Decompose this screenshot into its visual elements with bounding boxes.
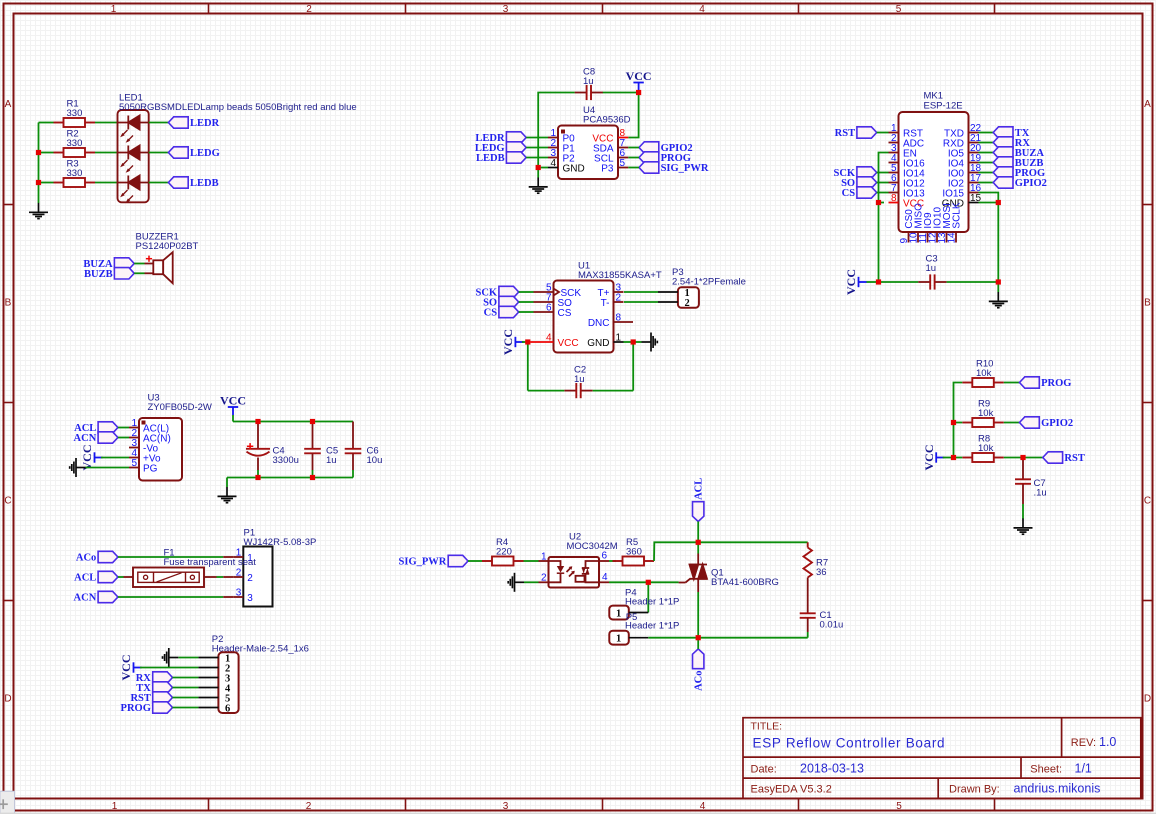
junction R2/GND bus	[36, 150, 41, 155]
svg-text:T-: T-	[601, 298, 610, 309]
U1 pin 4 VCC red stub	[530, 341, 553, 343]
ground (P2, rotated)	[163, 648, 179, 667]
resistor R4	[482, 557, 524, 566]
svg-text:ACL: ACL	[694, 478, 705, 500]
wire R1 left	[39, 122, 54, 124]
svg-text:Header 1*1P: Header 1*1P	[625, 596, 679, 607]
wire P1 pin3 stub	[223, 596, 233, 598]
U3 pin 5 PG	[129, 467, 139, 469]
wire T+ to P3	[624, 291, 658, 293]
wire VCC to U3	[101, 457, 129, 459]
wire U2 pin2 to ground	[524, 581, 539, 583]
wire U4 SDA to GPIO2	[628, 147, 639, 149]
wire IO15 to GND net	[979, 193, 999, 203]
resistor R3	[54, 178, 96, 187]
U3 pin 1 AC(L)	[129, 427, 139, 429]
svg-text:4: 4	[602, 572, 608, 583]
svg-text:MOC3042M: MOC3042M	[567, 541, 618, 552]
svg-text:ACN: ACN	[74, 593, 97, 604]
wire P1 pin2 stub	[223, 576, 233, 578]
port LEDG	[168, 147, 219, 159]
svg-text:Header 1*1P: Header 1*1P	[625, 621, 679, 632]
MK1 pin 20 IO5	[969, 152, 979, 154]
svg-text:Drawn By:: Drawn By:	[949, 784, 1000, 796]
connector P2 Header-Male-2.54_1x6	[198, 652, 238, 714]
wire F1 to P1	[217, 576, 224, 578]
svg-text:C: C	[4, 496, 11, 507]
P5 pin 1	[629, 637, 649, 639]
U1 pin 8 DNC	[614, 321, 634, 323]
svg-text:2: 2	[247, 573, 253, 584]
U4 pin 1 P0	[548, 137, 558, 139]
capacitor C2	[564, 383, 592, 398]
port PROG	[1020, 377, 1072, 389]
wire SCK to MK1	[877, 172, 889, 174]
svg-text:PG: PG	[143, 463, 158, 474]
wire P2 pin1 to ground	[178, 657, 198, 659]
VCC (P2, rotated)	[119, 655, 142, 681]
port SO	[483, 296, 519, 308]
U3 pin 4 +Vo	[129, 457, 139, 459]
svg-text:PROG: PROG	[1041, 378, 1071, 389]
svg-text:VCC: VCC	[119, 655, 133, 681]
wire PROG to P2	[173, 707, 199, 709]
port PROG	[639, 152, 691, 164]
wire MK1 to RX	[979, 142, 994, 144]
wire R2 left	[39, 152, 54, 154]
port LEDB	[476, 152, 526, 164]
svg-text:PS1240P02BT: PS1240P02BT	[136, 241, 199, 252]
junction gate/P4	[646, 580, 651, 585]
U2 pin 6	[599, 560, 609, 562]
port ACN	[74, 432, 118, 444]
capacitor C8	[575, 85, 603, 100]
wire ACo up	[697, 638, 699, 649]
MK1 pin 8 VCC	[889, 202, 899, 204]
U1 pin 2 T-	[614, 301, 624, 303]
svg-text:CS: CS	[558, 308, 572, 319]
svg-text:VCC: VCC	[501, 329, 515, 355]
wire MK1 to TX	[979, 132, 994, 134]
port GPIO2	[993, 177, 1047, 189]
svg-text:LEDG: LEDG	[190, 148, 220, 159]
buzzer plus sign	[146, 256, 152, 262]
resistor R10	[962, 378, 1004, 387]
svg-text:2: 2	[541, 573, 547, 584]
VCC (C3, rotated)	[844, 269, 867, 295]
svg-text:REV:: REV:	[1071, 737, 1096, 749]
wire R8 to RST	[1004, 457, 1043, 459]
MK1 pin 13 MOSI (bottom)	[946, 232, 948, 243]
junction ACL/Q1 top	[696, 540, 701, 545]
wire T- to P3	[624, 301, 658, 303]
port RST	[835, 127, 877, 139]
port SIG_PWR	[639, 162, 709, 174]
svg-text:DNC: DNC	[588, 318, 610, 329]
svg-text:Sheet:: Sheet:	[1030, 763, 1062, 775]
wire U2 pin4 to gate	[609, 581, 648, 583]
IC U4 PCA9536D	[548, 126, 628, 180]
VCC (pullups, rotated)	[922, 445, 945, 471]
svg-text:VCC: VCC	[626, 69, 652, 83]
U4 pin 6 SCL	[618, 157, 628, 159]
svg-text:10k: 10k	[978, 408, 994, 419]
svg-text:B: B	[1144, 298, 1151, 309]
port ACL	[74, 571, 118, 583]
svg-text:ESP Reflow Controller Board: ESP Reflow Controller Board	[753, 736, 946, 751]
junction R9 VCC	[951, 420, 956, 425]
port BUZA	[83, 258, 134, 270]
capacitor C7	[1015, 460, 1031, 504]
port SO	[841, 177, 877, 189]
wire VCC down	[232, 415, 234, 422]
wire C4 bottom	[257, 470, 259, 478]
connector P5 Header 1*1P	[609, 631, 648, 645]
U3 pin 2 AC(N)	[129, 437, 139, 439]
svg-text:1: 1	[111, 4, 117, 15]
frame row letters right	[1144, 99, 1151, 705]
connector P1 WJ142R-5.08-3P	[233, 547, 272, 607]
wire C2 right	[593, 390, 634, 392]
wire SO to MK1	[877, 182, 889, 184]
svg-text:2: 2	[306, 801, 312, 812]
U4 pin 4 GND	[548, 167, 558, 169]
port LEDR	[475, 132, 526, 144]
svg-text:ACN: ACN	[74, 433, 97, 444]
wire to ground (C3)	[997, 282, 999, 292]
port TX	[993, 127, 1030, 139]
U4 pin 2 P1	[548, 147, 558, 149]
wire GND net down	[997, 203, 999, 283]
svg-text:D: D	[1144, 694, 1151, 705]
svg-text:5: 5	[131, 458, 137, 469]
VCC (cap bank)	[220, 394, 246, 416]
MK1 pin 17 IO2	[969, 182, 979, 184]
resistor R1	[54, 118, 96, 127]
svg-text:6: 6	[546, 302, 552, 313]
svg-text:2: 2	[685, 298, 690, 309]
junction R8 VCC	[951, 455, 956, 460]
wire SIG_PWR to R4	[468, 560, 482, 562]
svg-text:VCC: VCC	[922, 445, 936, 471]
resistor R2	[54, 148, 96, 157]
wire R1 to LED1	[95, 122, 118, 124]
MK1 pin 11 IO9 (bottom)	[927, 232, 929, 243]
wire CS to MK1	[877, 192, 889, 194]
P4 pin 1	[629, 612, 649, 614]
svg-text:VCC: VCC	[844, 269, 858, 295]
P2 pin 6	[198, 707, 218, 709]
wire ACL to U3	[118, 427, 129, 429]
wire RST to P2	[173, 697, 199, 699]
port ACo	[76, 551, 118, 563]
ground (U3 PG, rotated)	[70, 458, 86, 477]
svg-text:BTA41-600BRG: BTA41-600BRG	[711, 577, 779, 588]
wire GND rail	[227, 477, 353, 479]
wire ACo to P1	[118, 556, 223, 558]
port TX	[136, 682, 172, 694]
svg-text:1u: 1u	[926, 263, 937, 274]
svg-text:360: 360	[626, 547, 642, 558]
title block	[743, 718, 1141, 799]
svg-text:GPIO2: GPIO2	[1015, 178, 1047, 189]
svg-text:4: 4	[700, 801, 706, 812]
P1 pin 1	[233, 556, 243, 558]
wire BUZA	[134, 263, 144, 265]
svg-text:3: 3	[236, 587, 242, 598]
svg-text:C: C	[1144, 496, 1151, 507]
svg-text:RST: RST	[835, 128, 855, 139]
svg-text:10k: 10k	[978, 443, 994, 454]
wire VCC net down	[878, 203, 880, 283]
frame column numbers bottom	[112, 801, 903, 812]
port RX	[136, 672, 173, 684]
svg-text:2: 2	[616, 292, 622, 303]
frame column ticks top	[208, 4, 210, 14]
wire MK1 to BUZA	[979, 152, 994, 154]
svg-text:P3: P3	[601, 163, 614, 174]
C4 plus sign	[247, 443, 253, 449]
junction RST/C7	[1020, 455, 1025, 460]
wire ACN to U3	[118, 437, 129, 439]
wire C8 left to GND net	[538, 93, 574, 168]
port GPIO2	[1020, 417, 1074, 429]
U1 pin 3 T+	[614, 291, 624, 293]
wire TX to P2	[173, 687, 199, 689]
wire LED1 to LEDR	[149, 122, 169, 124]
P2 pin 4	[198, 687, 218, 689]
P3 pin 2	[658, 301, 678, 303]
wire C6 bottom	[352, 470, 354, 478]
port PROG	[121, 702, 173, 714]
VCC (U4)	[626, 69, 652, 91]
bottom viewport edge	[0, 813, 1156, 814]
LED package LED1	[118, 110, 149, 203]
wire R9 to GPIO2	[1004, 422, 1020, 424]
svg-text:1: 1	[541, 551, 547, 562]
svg-text:VCC: VCC	[558, 338, 579, 349]
wire GND vertical bus	[38, 123, 40, 204]
MK1 pin 22 TXD	[969, 132, 979, 134]
svg-text:1.0: 1.0	[1099, 735, 1116, 749]
MK1 pin 6 IO12	[889, 182, 899, 184]
junction C3 VCC	[876, 279, 881, 284]
svg-text:1: 1	[616, 332, 622, 343]
junction MK1 VCC	[876, 200, 881, 205]
wire R3 to LED1	[95, 182, 118, 184]
svg-text:2.54-1*2PFemale: 2.54-1*2PFemale	[672, 276, 746, 287]
svg-text:CS: CS	[842, 188, 856, 199]
svg-text:330: 330	[67, 138, 83, 149]
port GPIO2	[639, 142, 693, 154]
wire bottom rail	[648, 637, 807, 639]
svg-text:D: D	[4, 694, 11, 705]
svg-text:10u: 10u	[367, 455, 383, 466]
svg-text:6: 6	[225, 703, 230, 714]
MK1 pin 2 ADC	[889, 142, 899, 144]
MK1 pin 19 IO4	[969, 162, 979, 164]
wire VCC stub	[867, 281, 879, 283]
wire CS to U1	[519, 311, 534, 313]
port ACL	[74, 422, 118, 434]
MK1 pin 14 SCLK (bottom)	[955, 232, 957, 243]
svg-text:ACo: ACo	[76, 553, 96, 564]
P2 pin 3	[198, 677, 218, 679]
svg-text:Fuse transparent seat: Fuse transparent seat	[164, 557, 257, 568]
svg-text:1: 1	[616, 608, 621, 619]
wire RX to P2	[173, 677, 199, 679]
junction C5 top	[310, 419, 315, 424]
MK1 pin 3 EN	[889, 152, 899, 154]
wire C7 to ground	[1022, 504, 1024, 519]
MK1 pin 5 IO14	[889, 172, 899, 174]
svg-text:5: 5	[620, 158, 626, 169]
wire P1 pin1 stub	[223, 556, 233, 558]
port SCK	[476, 286, 519, 298]
wire VCC to P2 pin2	[140, 667, 198, 669]
svg-text:BUZB: BUZB	[84, 269, 113, 280]
wire LEDG to U4	[526, 147, 548, 149]
wire GND to junction	[624, 341, 634, 343]
svg-text:2018-03-13: 2018-03-13	[800, 761, 864, 775]
P3 pin 1	[658, 291, 678, 293]
wire ACL to F1	[118, 576, 124, 578]
wire MK1 to PROG	[979, 172, 994, 174]
wire P4 up to gate	[647, 582, 649, 612]
port RX	[993, 137, 1030, 149]
frame column numbers top	[111, 4, 902, 15]
svg-text:andrius.mikonis: andrius.mikonis	[1014, 782, 1101, 796]
junction U1 VCC	[525, 339, 530, 344]
svg-text:ACL: ACL	[74, 573, 96, 584]
svg-text:36: 36	[816, 567, 827, 578]
port BUZB	[84, 268, 134, 280]
wire PG to ground	[86, 467, 130, 469]
wire SCK to U1	[519, 291, 534, 293]
wire VCC pullup bus	[954, 383, 963, 458]
junction C5 bottom	[310, 475, 315, 480]
port LEDG	[475, 142, 526, 154]
svg-text:TITLE:: TITLE:	[751, 721, 783, 733]
VCC (U1, rotated)	[501, 329, 524, 355]
wire VCC stub	[943, 457, 954, 459]
MK1 pin 7 IO13	[889, 192, 899, 194]
MK1 pin 18 IO0	[969, 172, 979, 174]
resistor R7 (zigzag)	[804, 542, 812, 613]
svg-text:2: 2	[306, 4, 312, 15]
VCC (U3, rotated)	[80, 445, 103, 471]
frame column ticks bottom	[208, 799, 210, 811]
U1 pin 5 SCK	[534, 291, 554, 293]
wire VCC to junction	[522, 341, 528, 343]
junction U1 GND	[631, 339, 636, 344]
U4 pin 5 P3	[618, 167, 628, 169]
svg-text:4: 4	[699, 4, 705, 15]
ground (LED bus)	[29, 203, 48, 219]
wire Q1 MT2	[697, 542, 699, 553]
svg-text:ESP-12E: ESP-12E	[924, 100, 963, 111]
port SIG_PWR	[399, 555, 468, 567]
junction ACo/Q1 bottom	[696, 635, 701, 640]
svg-text:RST: RST	[1064, 453, 1084, 464]
svg-text:2: 2	[236, 567, 242, 578]
wire SO to U1	[519, 301, 534, 303]
wire GND stub	[633, 341, 641, 343]
wire R5 to top rail	[654, 542, 808, 561]
svg-text:10k: 10k	[976, 368, 992, 379]
P1 pin 2	[233, 576, 243, 578]
wire RST to MK1	[877, 132, 889, 134]
wire VCC to U4 pin8	[628, 95, 638, 138]
U2 pin 4	[599, 581, 609, 583]
frame row letters left	[4, 99, 11, 705]
resistor R5	[613, 557, 655, 566]
title block text	[751, 721, 1097, 796]
port PROG	[993, 167, 1045, 179]
port ACL	[693, 478, 705, 522]
port RST	[1043, 452, 1085, 464]
svg-text:1u: 1u	[326, 455, 337, 466]
wire C1 to bottom rail	[807, 632, 809, 638]
MK1 pin 1 RST	[889, 132, 899, 134]
P1 pin 3	[233, 596, 243, 598]
junction U4 GND	[536, 165, 541, 170]
wire gate maroon segment	[648, 581, 678, 583]
capacitor C5	[304, 422, 321, 471]
wire U4 pin4	[538, 167, 548, 169]
svg-text:ACo: ACo	[694, 671, 705, 691]
svg-text:1: 1	[616, 634, 621, 645]
svg-text:3: 3	[503, 801, 509, 812]
buzzer BUZZER1 symbol	[145, 252, 173, 283]
port CS	[484, 306, 519, 318]
wire U4 SCL to PROG	[628, 157, 639, 159]
port RST	[130, 692, 172, 704]
U1 pin 6 CS	[534, 311, 554, 313]
svg-text:PCA9536D: PCA9536D	[583, 115, 631, 126]
resistor R9	[962, 418, 1004, 427]
U4 pin 3 P2	[548, 157, 558, 159]
ground (C3)	[989, 292, 1008, 308]
svg-text:B: B	[5, 298, 12, 309]
U2 internal triac	[576, 561, 600, 582]
module MK1 ESP-12E	[889, 112, 982, 244]
wire to pin8	[879, 202, 885, 204]
wire R3 left	[39, 182, 54, 184]
wire MK1 to BUZB	[979, 162, 994, 164]
ground (cap bank)	[218, 487, 237, 503]
wire VCC to C2	[527, 342, 529, 391]
MK1 pin 12 IO10 (bottom)	[936, 232, 938, 243]
P2 pin 5	[198, 697, 218, 699]
svg-text:GPIO2: GPIO2	[1041, 418, 1073, 429]
svg-text:5: 5	[896, 801, 902, 812]
svg-text:1/1: 1/1	[1075, 761, 1092, 775]
svg-text:GND: GND	[563, 163, 585, 174]
wire U2 to R5	[609, 560, 616, 562]
connector P4 Header 1*1P	[609, 606, 648, 620]
P2 pin 2	[198, 667, 218, 669]
svg-text:VCC: VCC	[220, 394, 246, 408]
svg-text:5: 5	[896, 4, 902, 15]
triac Q1 BTA41-600BRG	[679, 554, 707, 593]
wire U4 P3 to SIG_PWR	[628, 167, 639, 169]
svg-text:3: 3	[247, 593, 253, 604]
svg-text:330: 330	[67, 168, 83, 179]
svg-text:CS: CS	[484, 308, 498, 319]
wire EN to VCC net	[879, 153, 889, 203]
P2 pin 1	[198, 657, 218, 659]
